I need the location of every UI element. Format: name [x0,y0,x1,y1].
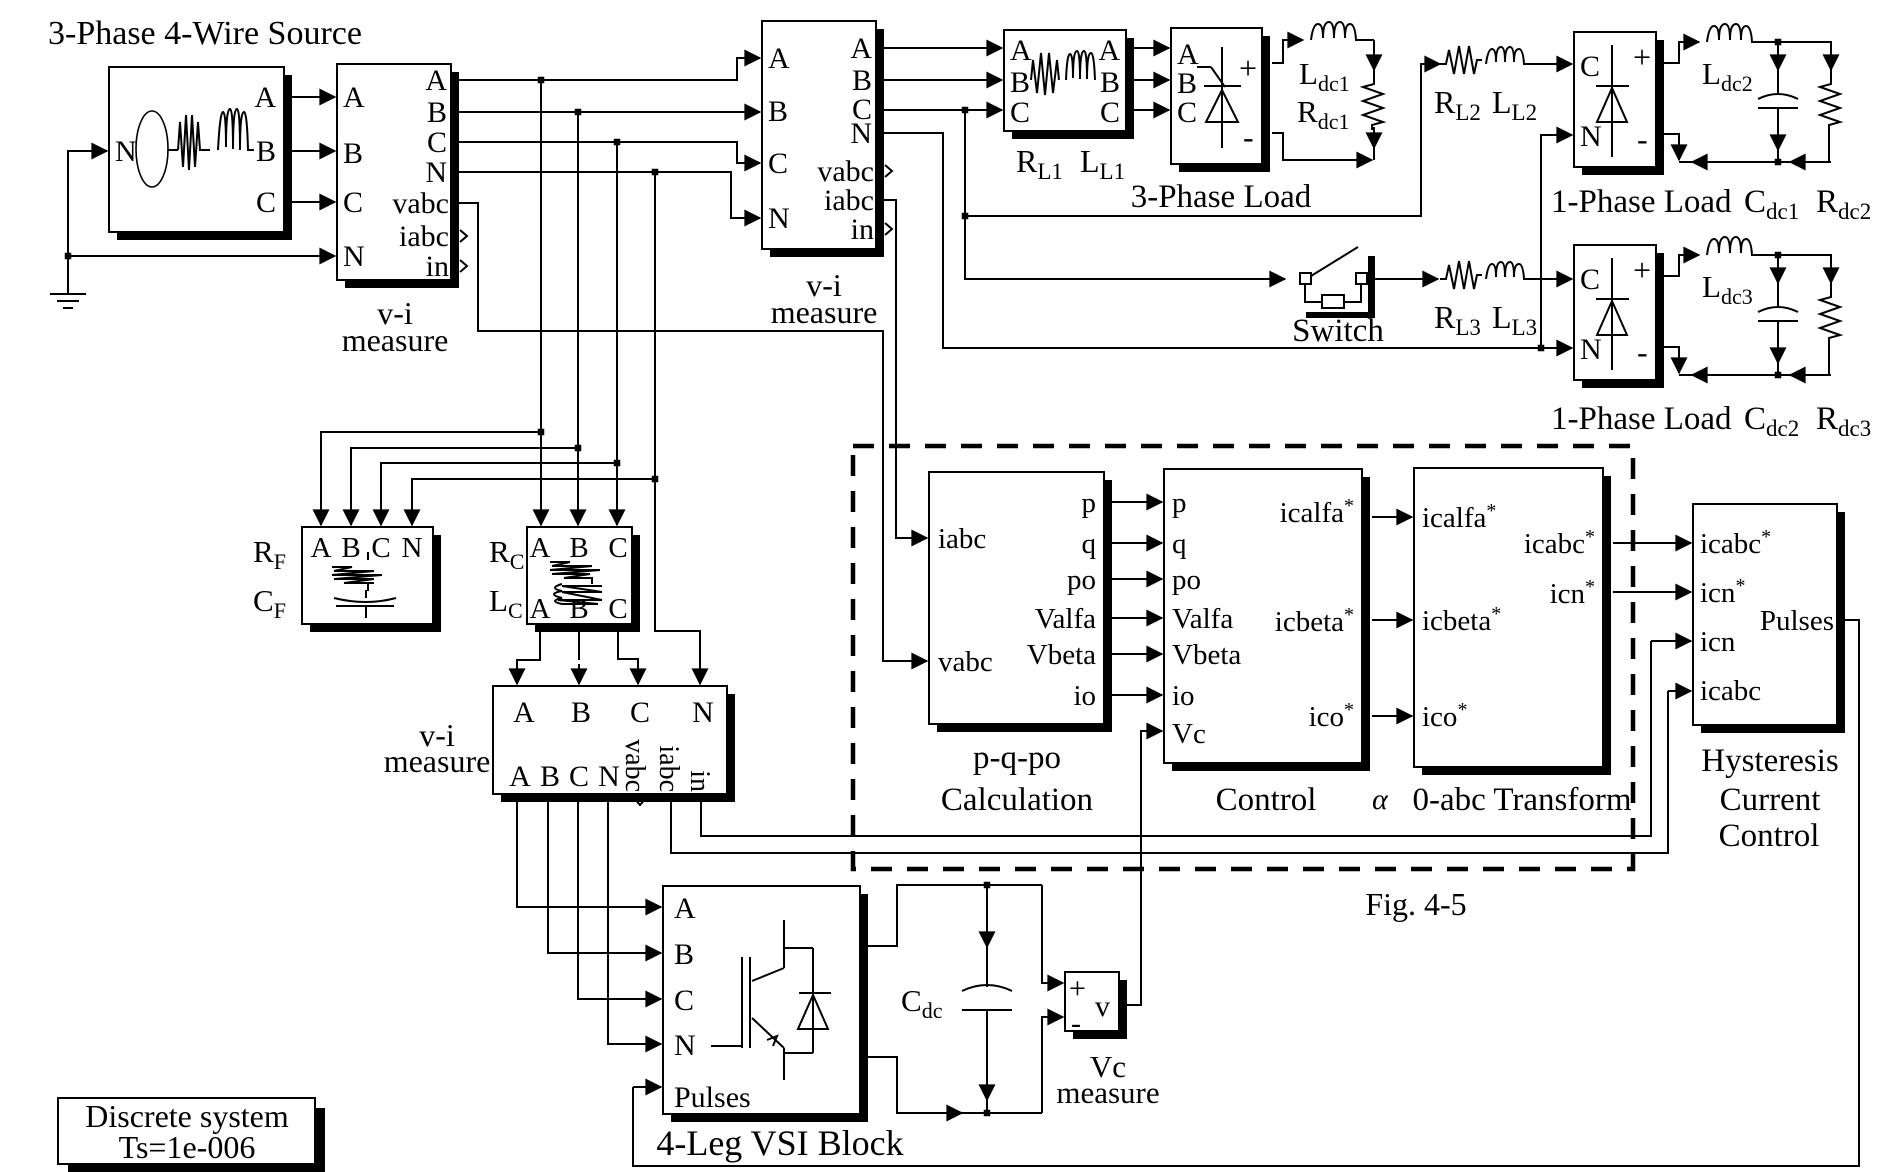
svg-text:N: N [598,760,620,793]
svg-text:measure: measure [384,743,491,779]
node junction A x541 [538,77,545,84]
svg-text:0-abc Transform: 0-abc Transform [1412,782,1631,818]
svg-text:B: B [1100,66,1120,99]
inductor LL3 [1486,262,1536,279]
RC LC coupling block [527,527,640,632]
svg-text:+: + [1633,252,1651,288]
inductor Ldc2 [1707,24,1778,42]
svg-text:B: B [343,137,363,170]
svg-text:Valfa: Valfa [1172,603,1233,635]
wire p-q-po q to control q [1112,542,1162,544]
svg-text:C: C [256,186,276,219]
svg-text:icalfa*: icalfa* [1280,495,1354,529]
wire icn* to hysteresis [1613,591,1691,593]
RF CF filter block [302,527,441,632]
svg-text:B: B [341,532,360,564]
svg-text:Calculation: Calculation [941,782,1093,818]
svg-text:N: N [1580,333,1602,366]
svg-text:Vbeta: Vbeta [1027,639,1096,671]
wire load2 + to Ldc3 [1664,255,1686,276]
svg-text:io: io [1172,680,1195,712]
svg-text:C: C [1010,96,1030,129]
wire 3ph load + to Ldc1 [1272,40,1290,63]
svg-text:in: in [851,213,874,246]
wire Ldc1 to Rdc1 top [1373,40,1375,54]
node junction B x578 [575,109,582,116]
wire v-i2 B out to RL1 B [884,79,1002,81]
svg-text:po: po [1172,564,1201,596]
svg-text:po: po [1067,564,1096,596]
RL1 resistor symbol [1031,53,1059,95]
svg-text:3-Phase Load: 3-Phase Load [1131,179,1312,215]
svg-text:-: - [1243,119,1254,155]
switch block [1300,247,1438,318]
3-Phase Load block (diode rectifier) [1171,28,1270,172]
svg-text:C: C [1580,50,1600,83]
wire v-i1 B out to v-i2 B [459,111,760,113]
svg-text:A: A [425,64,447,97]
wire v-i1 vabc out down to p-q-po vabc [459,203,927,661]
svg-text:Current: Current [1720,782,1821,818]
svg-text:C: C [1177,96,1197,129]
svg-text:B: B [1010,66,1030,99]
node junction B y448 [575,445,582,452]
wire icabc* to hysteresis [1613,542,1691,544]
wire N input to source [68,151,95,293]
wire RC B out to v-i3 B [578,624,580,660]
svg-text:icalfa*: icalfa* [1422,500,1496,534]
svg-text:N: N [768,202,790,235]
svg-text:p-q-po: p-q-po [973,740,1061,776]
dashed boundary Fig 4-5 box [853,446,1633,869]
node junction C y463 [614,460,621,467]
capacitor Cdc branch [986,885,988,947]
svg-text:measure: measure [1056,1075,1159,1110]
wire p-q-po p to control p [1112,501,1162,503]
load1 diode symbol [1596,45,1629,157]
node junction A y432 [538,429,545,436]
capacitor Cdc1 branch [1777,42,1779,70]
node junction cap bottom load1 [1775,159,1782,166]
node junction N x655 [652,169,659,176]
svg-text:A: A [674,892,696,925]
svg-text:in: in [684,770,715,792]
wire v-i3 B down to VSI B [548,794,661,953]
svg-text:+: + [1633,39,1651,75]
svg-text:q: q [1082,528,1097,560]
wire v-i2 iabc out down to p-q-po iabc [884,200,927,538]
svg-text:C: C [371,532,390,564]
RF resistor symbol inside [332,552,382,591]
svg-text:C: C [768,147,788,180]
svg-text:C: C [343,186,363,219]
wire C down to RF/RC [381,142,617,517]
resistor RL3 [1440,261,1482,289]
Discrete system annotation box [58,1098,325,1172]
wire N rail up to load1 N [1541,135,1572,348]
wire RL1 A to 3ph load A [1134,47,1169,49]
resistor Rdc3 branch [1830,257,1832,283]
resistor Rdc2 branch [1830,44,1832,70]
svg-text:-: - [1071,1007,1081,1040]
wire v-i1 A out to v-i2 A [459,58,748,80]
svg-text:B: B [569,593,588,625]
wire Ldc2 to right branch [1773,42,1831,55]
svg-text:C: C [427,126,447,159]
svg-text:iabc: iabc [399,220,449,253]
svg-text:q: q [1172,528,1187,560]
v-i measure 2 in stub [885,223,892,235]
wire Vc measure out up to control Vc [1127,731,1162,1005]
wire C branch down to RL2 and switch [965,110,1285,279]
svg-text:Control: Control [1719,818,1820,854]
wire N rail to v-i1 N [68,255,335,257]
svg-text:vabc: vabc [619,739,650,792]
wire VSI - out to bottom rail [868,1057,940,1113]
svg-text:A: A [513,696,535,729]
svg-text:A: A [1098,34,1120,67]
wire RL1 B to 3ph load B [1134,79,1169,81]
svg-text:vabc: vabc [392,187,449,220]
wire p-q-po po to control po [1112,578,1162,580]
wire v-i1 N out to v-i2 N [459,172,748,218]
inductor Ldc1 [1311,22,1374,40]
svg-text:B: B [571,696,591,729]
source AC symbol ellipse [136,111,168,187]
svg-text:Pulses: Pulses [1760,605,1834,637]
1-Phase Load 1 block [1574,32,1664,175]
svg-text:C: C [1580,263,1600,296]
wire source output C to v-i1 C [284,201,335,203]
v-i measure 1 block [337,64,459,288]
svg-text:A: A [343,81,365,114]
wire bottom rail load1 [1818,161,1831,163]
svg-text:N: N [425,156,447,189]
4-Leg VSI block [663,886,868,1122]
wire VSI + out to top rail [868,885,1042,946]
v-i measure 3 block [493,686,735,802]
svg-text:C: C [608,532,627,564]
wire load2 - down to rail [1664,347,1679,353]
svg-text:Hysteresis: Hysteresis [1701,743,1838,779]
wire v-i3 C down to VSI C [578,794,661,999]
svg-text:3-Phase 4-Wire Source: 3-Phase 4-Wire Source [48,15,362,52]
wire v-i1 C out to v-i2 C [459,142,748,163]
wire C branch to RL2 [965,64,1428,216]
svg-text:B: B [569,532,588,564]
Control block [1164,469,1370,771]
svg-text:A: A [1010,34,1032,67]
v-i measure 1 iabc stub [460,230,467,242]
wire source output A to v-i1 A [284,96,335,98]
svg-text:C: C [608,593,627,625]
svg-text:A: A [850,32,872,65]
RC resistor symbol inside [550,562,600,584]
load2 diode symbol [1596,258,1629,370]
svg-text:N: N [115,135,137,168]
svg-text:Vc: Vc [1172,718,1206,750]
wire p-q-po io to control io [1112,694,1162,696]
svg-text:iabc: iabc [938,523,986,555]
3-Phase Load thyristor symbol [1197,47,1241,148]
source block 3-phase 4-wire source [109,67,292,240]
node junction C out x965 [962,107,969,114]
svg-text:N: N [343,240,365,273]
ground [50,294,86,308]
wire Ldc3 to right branch [1773,255,1831,268]
svg-text:B: B [540,760,560,793]
node junction bottom rail x987 [984,1110,991,1117]
svg-text:-: - [1637,334,1648,370]
svg-text:measure: measure [771,294,878,330]
v-i measure 1 in stub [460,260,467,272]
svg-text:N: N [692,696,714,729]
svg-text:Valfa: Valfa [1035,603,1096,635]
node junction cap bottom load2 [1775,372,1782,379]
wire v-i2 C out to RL1 C [884,109,1002,111]
wire RL1 C to 3ph load C [1134,109,1169,111]
wire load1 - down to rail [1664,134,1679,140]
svg-text:vabc: vabc [938,646,993,678]
VSI IGBT symbol [711,920,831,1080]
svg-text:Switch: Switch [1292,313,1384,349]
LL1 inductor symbol [1066,51,1095,80]
wire control icbeta to 0-abc icbeta [1372,619,1412,621]
svg-text:icbeta*: icbeta* [1275,604,1354,638]
wire p-q-po Valfa to control Valfa [1112,617,1162,619]
svg-text:Fig. 4-5: Fig. 4-5 [1365,886,1466,922]
wire v-i3 in to hysteresis icn [701,643,1651,836]
node junction top rail x987 [984,882,991,889]
wire p-q-po Vbeta to control Vbeta [1112,653,1162,655]
Vc measure block [1065,972,1127,1040]
node junction cap top load2 [1775,252,1782,259]
svg-text:A: A [768,42,790,75]
node junction x965 y216 [962,213,969,220]
svg-text:Ts=1e-006: Ts=1e-006 [119,1129,256,1165]
svg-text:C: C [1100,96,1120,129]
svg-text:icbeta*: icbeta* [1422,603,1501,637]
resistor RL2 [1440,46,1482,74]
svg-text:A: A [530,593,551,625]
svg-text:+: + [1239,50,1257,86]
node junction N y479 [652,476,659,483]
svg-text:A: A [530,532,551,564]
CF capacitor symbol inside [334,590,396,618]
svg-text:N: N [674,1029,696,1062]
wire control ico to 0-abc ico [1372,715,1412,717]
1-Phase Load 2 block [1574,245,1664,388]
svg-text:-: - [1637,121,1648,157]
svg-text:io: io [1073,680,1096,712]
svg-text:icabc: icabc [1700,675,1761,707]
wire v-i3 iabc to hysteresis icabc [671,691,1668,853]
wire load1 + to Ldc2 [1664,42,1686,63]
wire control icalfa to 0-abc icalfa [1372,516,1412,518]
wire v-i2 A out to RL1 A [884,47,1002,49]
wire LL3 to load2 C [1534,278,1572,280]
Hysteresis Current Control block [1693,504,1845,733]
svg-text:B: B [427,96,447,129]
svg-text:C: C [569,760,589,793]
v-i measure 2 vabc stub [885,165,892,177]
svg-text:icabc*: icabc* [1524,526,1595,560]
RL1 LL1 block [1004,30,1134,139]
wire source output B to v-i1 B [284,150,335,152]
v-i measure 2 block [762,21,884,257]
LC inductor symbol inside [554,584,602,604]
wire LL2 to load1 C [1534,63,1572,65]
svg-text:B: B [674,938,694,971]
wire RC A out to v-i3 A [517,624,540,676]
svg-text:N: N [1580,120,1602,153]
svg-text:1-Phase Load: 1-Phase Load [1551,184,1732,220]
svg-text:v: v [1095,990,1110,1023]
inductor LL2 [1486,47,1536,64]
svg-text:p: p [1082,487,1097,519]
svg-text:icabc*: icabc* [1700,526,1771,560]
svg-text:B: B [256,135,276,168]
wire v-i3 N down to VSI N [608,794,661,1044]
wire bottom rail up to Vc measure - [1042,1017,1063,1113]
wire 3ph load - to Rdc1 bottom [1272,133,1345,160]
svg-text:p: p [1172,487,1187,519]
wire N down to RF and v-i3 N [412,172,655,517]
svg-text:α: α [1372,783,1389,816]
0-abc Transform block [1414,468,1611,775]
wire v-i3 A down to VSI A [517,794,661,907]
wire bottom rail load2 [1818,374,1831,376]
node junction C x617 [614,139,621,146]
source sine burst 2 [218,109,254,150]
svg-text:icn: icn [1700,626,1736,658]
svg-text:B: B [768,95,788,128]
v-i measure 3 vabc stub [634,798,646,805]
svg-text:iabc: iabc [653,745,684,792]
capacitor Cdc2 branch [1777,255,1779,283]
node junction N rail x1541 [1538,345,1545,352]
wire RC C out to v-i3 C [618,624,638,676]
svg-text:C: C [630,696,650,729]
inductor Ldc3 [1707,237,1778,255]
svg-text:A: A [311,532,332,564]
svg-text:in: in [426,250,449,283]
svg-text:N: N [850,117,872,150]
node junction cap top load1 [1775,39,1782,46]
wire hysteresis Pulses output to VSI Pulses [633,620,1859,1166]
wire A down to RF/RC [321,80,541,517]
svg-text:1-Phase Load: 1-Phase Load [1551,401,1732,437]
svg-text:Pulses: Pulses [674,1081,751,1114]
wire B down to RF/RC [351,112,578,517]
wire Rdc1 bottom [1373,127,1375,148]
svg-text:measure: measure [342,322,449,358]
wire v-i2 N out to loads N rail [884,133,1572,348]
resistor Rdc1 [1363,70,1383,130]
svg-text:N: N [402,532,423,564]
wire top rail down to Vc measure + [1042,885,1063,983]
svg-text:Control: Control [1216,782,1317,818]
svg-text:A: A [254,81,276,114]
source sine burst 1 [168,115,210,170]
svg-text:A: A [509,760,531,793]
p-q-po Calculation block [929,472,1112,732]
svg-text:+: + [1069,972,1086,1005]
node N branch junction [65,253,72,260]
svg-text:4-Leg VSI Block: 4-Leg VSI Block [656,1123,903,1163]
svg-text:C: C [674,984,694,1017]
svg-text:Vbeta: Vbeta [1172,639,1241,671]
